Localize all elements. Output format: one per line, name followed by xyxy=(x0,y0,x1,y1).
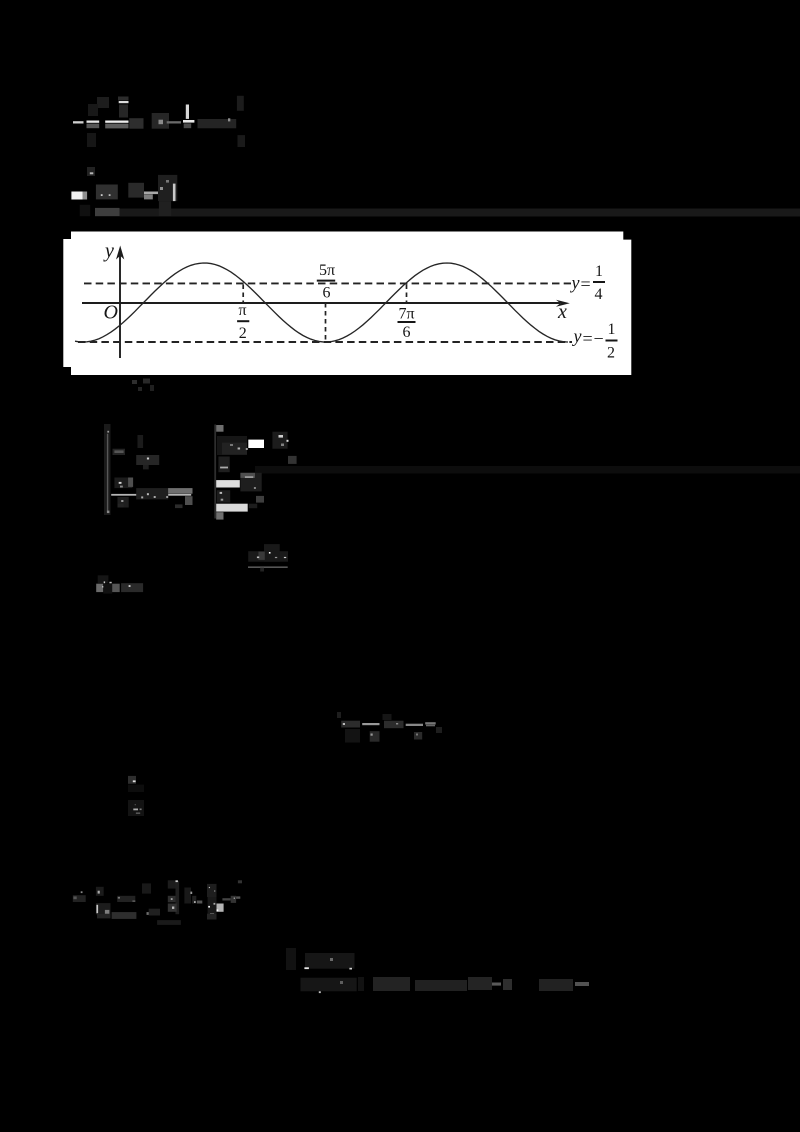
system right eq 1 xyxy=(217,432,297,473)
label pi/2 xyxy=(237,302,249,342)
svg-text:=: = xyxy=(583,329,593,349)
below-graph small marks "(1)" xyxy=(132,379,154,392)
system right eq 2 xyxy=(216,473,261,503)
svg-text:6: 6 xyxy=(403,324,411,341)
label 7pi/6 xyxy=(398,306,416,342)
stacked fraction (y~948-994) xyxy=(286,948,364,993)
svg-text:x: x xyxy=(557,301,567,323)
long bracket formula (y~880-920) xyxy=(73,880,242,925)
sine curve xyxy=(75,263,568,342)
faint horizontal band system row xyxy=(255,466,800,474)
y-axis xyxy=(119,252,121,358)
svg-text:π: π xyxy=(239,302,247,319)
svg-text:=: = xyxy=(581,274,591,294)
formula row 2 fragments (y~165-216) xyxy=(71,167,800,217)
svg-text:5π: 5π xyxy=(319,262,335,279)
small fraction marks (y~776-816) xyxy=(128,776,144,816)
label 5pi/6 xyxy=(317,262,335,302)
dashed line y=-1/2 xyxy=(78,341,572,343)
system left eq 2 xyxy=(111,478,192,509)
system right eq 3 xyxy=(216,496,264,512)
svg-text:y: y xyxy=(103,240,114,262)
svg-text:O: O xyxy=(104,302,118,324)
label y=-1/2 xyxy=(572,321,618,362)
svg-text:y: y xyxy=(570,273,580,293)
standalone 5pi/6 fraction (y~546-576) xyxy=(248,544,288,571)
svg-text:7π: 7π xyxy=(399,306,415,323)
svg-text:6: 6 xyxy=(323,285,331,302)
svg-text:y: y xyxy=(572,326,582,346)
y-axis arrowhead xyxy=(116,246,124,260)
x-axis arrowhead xyxy=(556,300,570,307)
svg-text:2: 2 xyxy=(607,345,615,362)
dashed line y=1/4 xyxy=(84,282,571,284)
dashed vertical at 7pi/6 xyxy=(406,285,408,304)
system left eq 1 xyxy=(113,435,160,469)
sin theta formula (y~714-741) xyxy=(337,712,442,743)
system of equations left brace xyxy=(104,424,111,515)
formula row 1 fragments (y~95-150) xyxy=(73,96,245,147)
svg-text:4: 4 xyxy=(595,286,603,303)
svg-text:2: 2 xyxy=(239,325,247,342)
svg-text:1: 1 xyxy=(595,263,603,280)
x-axis xyxy=(82,302,560,304)
system right brace xyxy=(214,425,223,520)
svg-text:1: 1 xyxy=(608,321,616,338)
label y=1/4 xyxy=(570,263,606,303)
graph image white background box xyxy=(63,232,631,376)
faint horizontal band row2 xyxy=(120,209,800,217)
"(2)" row marks (y~580-594) xyxy=(96,575,143,593)
dashed vertical at 5pi/6 xyxy=(325,303,327,342)
svg-text:−: − xyxy=(594,329,604,349)
dashed vertical at pi/2 xyxy=(242,285,244,304)
bottom text line (y~977-993) xyxy=(373,977,589,991)
